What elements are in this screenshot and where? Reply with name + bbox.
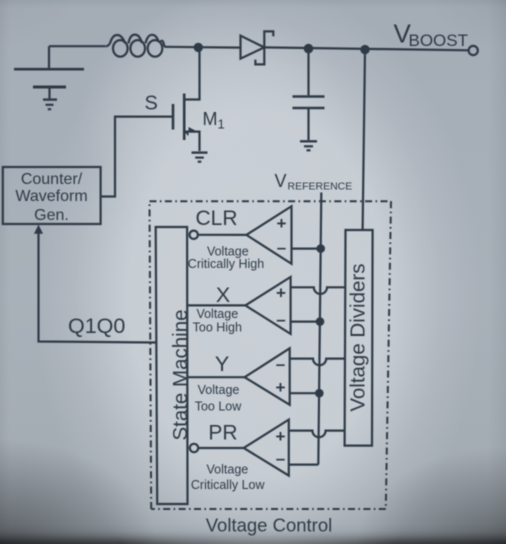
svg-text:–: – — [276, 310, 285, 329]
svg-text:Q1Q0: Q1Q0 — [68, 314, 125, 338]
svg-text:Y: Y — [215, 352, 229, 376]
svg-text:Waveform: Waveform — [15, 188, 87, 205]
svg-text:X: X — [216, 283, 230, 307]
svg-text:State Machine: State Machine — [169, 309, 192, 440]
svg-text:Voltage: Voltage — [207, 462, 249, 476]
svg-text:+: + — [276, 378, 286, 397]
svg-text:REFERENCE: REFERENCE — [288, 180, 353, 192]
svg-text:–: – — [276, 449, 285, 468]
svg-text:Voltage: Voltage — [198, 383, 240, 397]
svg-text:Critically Low: Critically Low — [191, 478, 266, 492]
svg-text:Critically High: Critically High — [188, 257, 264, 271]
svg-text:1: 1 — [218, 117, 225, 132]
svg-text:Counter/: Counter/ — [21, 171, 83, 188]
svg-text:+: + — [277, 214, 287, 233]
svg-text:V: V — [275, 171, 287, 191]
svg-text:M: M — [203, 109, 218, 129]
svg-text:Voltage: Voltage — [196, 307, 238, 321]
svg-text:Too High: Too High — [193, 321, 242, 335]
svg-text:–: – — [277, 238, 286, 257]
svg-text:BOOST: BOOST — [409, 31, 469, 50]
svg-text:CLR: CLR — [195, 207, 237, 230]
svg-text:+: + — [276, 284, 286, 303]
svg-text:Voltage Dividers: Voltage Dividers — [346, 264, 369, 412]
svg-text:PR: PR — [208, 422, 237, 445]
svg-text:S: S — [145, 93, 158, 115]
svg-text:Too Low: Too Low — [195, 399, 243, 413]
svg-text:+: + — [276, 427, 286, 446]
svg-text:Gen.: Gen. — [34, 207, 69, 224]
svg-text:Voltage Control: Voltage Control — [206, 515, 333, 536]
svg-text:–: – — [276, 355, 285, 374]
